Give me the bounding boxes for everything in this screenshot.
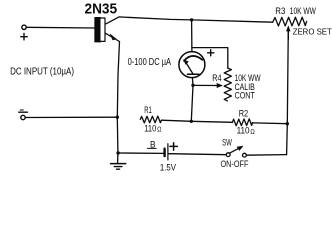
svg-text:0-100 DC µA: 0-100 DC µA	[128, 57, 172, 68]
wire branch to R4 top	[192, 48, 228, 69]
label B underline	[148, 147, 157, 149]
svg-text:ZERO SET: ZERO SET	[293, 26, 332, 36]
svg-text:2N35: 2N35	[85, 1, 118, 18]
svg-text:SW: SW	[222, 138, 232, 148]
switch contact circles	[226, 153, 230, 157]
node meter / rail junction	[190, 120, 193, 123]
wire meter bottom to rail	[191, 78, 193, 122]
node meter bottom / R4 wiper junction	[191, 84, 194, 87]
svg-text:ON-OFF: ON-OFF	[221, 159, 249, 169]
meter M1 circle	[179, 52, 205, 78]
meter bottom chord	[187, 73, 199, 75]
svg-text:110: 110	[144, 123, 156, 133]
emitter arrow	[110, 33, 117, 40]
R3 wiper arrow	[286, 25, 290, 31]
svg-text:R4: R4	[212, 73, 221, 83]
plus sign near battery	[170, 143, 177, 150]
resistor R1 110ohm	[140, 116, 161, 123]
wire switch right rail	[246, 154, 286, 157]
node battery rail / ground junction	[116, 151, 119, 154]
plus sign top-left terminal	[21, 34, 27, 40]
R4 wiper shaft	[193, 84, 219, 86]
node emitter / lower rail junction	[116, 116, 119, 119]
arrowheads	[110, 25, 291, 151]
svg-text:Ω: Ω	[250, 129, 255, 136]
terminal + input	[22, 25, 26, 29]
meter needle	[186, 63, 193, 74]
minus marks lower-left terminal	[19, 111, 28, 113]
plus sign near meter	[208, 50, 214, 56]
svg-text:DC INPUT (10µA): DC INPUT (10µA)	[10, 67, 74, 78]
wire lower-left rail from minus terminal	[25, 116, 117, 118]
svg-text:R2: R2	[239, 109, 249, 119]
wire rail R1 right to meter junction	[162, 120, 233, 122]
resistor R4 10K WW calib	[224, 68, 231, 101]
battery B positive plate	[167, 144, 169, 160]
wire collector to top rail	[106, 17, 273, 24]
meter needle arrow	[183, 59, 189, 64]
switch SW lever	[230, 147, 241, 153]
wire ground junction to battery	[118, 152, 163, 154]
wire R3 wiper vertical down right side	[287, 29, 289, 155]
terminal - input	[21, 115, 25, 119]
svg-text:1.5V: 1.5V	[160, 162, 176, 172]
ground symbol	[117, 153, 119, 163]
svg-text:Ω: Ω	[157, 127, 162, 134]
meter scale arc	[184, 56, 202, 61]
resistor R3 10K WW zero set	[273, 17, 307, 26]
R4 wiper arrow	[217, 83, 223, 88]
wire base from + input terminal to transistor	[26, 26, 95, 29]
svg-text:R3: R3	[275, 6, 285, 16]
svg-text:CONT: CONT	[235, 91, 256, 101]
svg-text:R1: R1	[144, 105, 152, 115]
transistor Q1 2N35 base bar	[95, 18, 101, 42]
wire meter branch vertical top	[191, 20, 193, 52]
node top meter junction	[190, 18, 193, 21]
wire rail R2 right to right vertical	[252, 122, 287, 125]
svg-text:B: B	[150, 139, 156, 149]
resistor R2 110ohm	[232, 119, 252, 126]
svg-text:10K WW: 10K WW	[290, 6, 316, 16]
wire battery to switch	[169, 154, 227, 155]
switch lever arrow	[237, 146, 244, 151]
node R2 right junction	[286, 122, 289, 125]
battery B negative plate	[163, 149, 165, 156]
wire emitter down-left vertical	[105, 33, 120, 153]
svg-text:110: 110	[237, 126, 250, 136]
R3 wiper shaft	[287, 30, 289, 41]
